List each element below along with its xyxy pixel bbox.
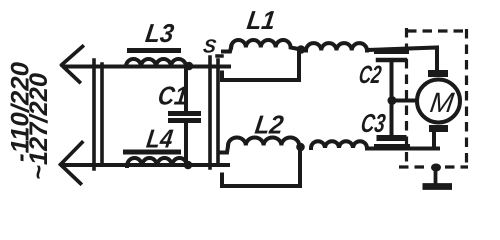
wire L2 to motor bottom [367,147,438,151]
arrow top (mains input) [62,47,83,83]
node L2 tap dot [296,143,305,152]
ground stem [434,168,438,183]
svg-text:L4: L4 [145,124,176,154]
node L1 tap dot [297,45,306,54]
svg-text:C2: C2 [357,61,383,89]
svg-text:M: M [428,87,456,118]
ground bar [423,183,453,190]
wire junction to motor frame [392,99,417,103]
motor M circle [417,80,460,123]
node bottom junction dot [184,161,193,170]
inductor L1 lead hook [223,48,231,52]
inductor L2 lead hook [221,146,229,153]
connector X1 line 1 [92,60,96,169]
ground junction dot [431,164,441,172]
capacitor C3 plate bottom (on wire) [377,144,407,150]
inductor L1 coil 2 [306,43,367,50]
inductor L2 coil 2 [311,141,367,148]
capacitor C1 plates [171,111,199,116]
wire bottom mains [62,163,228,167]
wire L1 to motor top [367,48,437,71]
capacitor C1 stem bottom [184,123,188,165]
motor shield dashed box [399,28,468,167]
inductor L4 core bar [126,150,179,155]
inductor L3 coil [126,59,186,67]
inductor L3 core bar [130,48,179,53]
connector S line 2 [216,60,220,165]
capacitor C2 plate bottom [378,58,405,63]
svg-text:L3: L3 [144,18,177,48]
connector X1 line 2 [100,64,104,164]
wire S to L1 tap (stepped) [222,52,299,80]
svg-text:C1: C1 [156,81,189,111]
connector S stub [217,54,222,58]
svg-text:~127/220: ~127/220 [25,73,53,180]
capacitor C3 plate top [380,135,404,141]
motor brush bottom [429,125,448,132]
capacitor C2 stem [390,62,394,99]
svg-text:L1: L1 [245,5,277,35]
svg-text:L2: L2 [253,110,286,140]
capacitor C1 stem top [184,66,188,110]
wire top mains [64,65,229,69]
node top junction dot [185,62,194,71]
inductor L2 coil 1 [228,138,299,146]
arrow bottom (mains input) [61,143,83,184]
capacitor C3 stem [390,102,394,136]
wire S to L2 tap (stepped) [222,150,300,186]
node shield junction dot [388,96,397,105]
inductor L4 coil [127,158,187,166]
wire motor bottom stem [432,132,436,147]
connector S line 1 [208,57,212,168]
inductor L1 coil 1 [231,40,301,50]
capacitor C2 plate top [377,49,407,54]
svg-text:C3: C3 [359,108,388,138]
motor brush top [428,70,448,77]
